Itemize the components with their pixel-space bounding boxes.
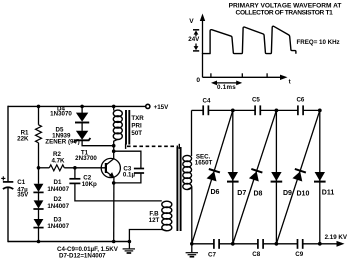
diode D7 vertical xyxy=(232,110,234,243)
label TXR PRI 50T xyxy=(131,115,144,137)
left rail wire lower xyxy=(7,187,9,242)
svg-text:D6: D6 xyxy=(211,189,220,196)
svg-text:D8: D8 xyxy=(254,191,263,198)
capacitor C8 xyxy=(257,239,259,249)
node top 3 xyxy=(318,109,322,113)
svg-text:1N4007: 1N4007 xyxy=(47,223,69,230)
node secondary ground xyxy=(190,242,194,246)
capacitor C1 xyxy=(3,181,13,183)
label T1 2N3700 xyxy=(75,149,97,162)
transformer primary coil TXR PRI 50T xyxy=(113,106,115,110)
svg-text:D11: D11 xyxy=(322,190,335,197)
secondary winding SEC 1650T xyxy=(191,110,193,156)
svg-text:0: 0 xyxy=(196,77,200,84)
svg-text:50T: 50T xyxy=(131,130,142,137)
node top 2 xyxy=(275,109,279,113)
node primary top xyxy=(112,105,116,109)
capacitor C5 xyxy=(254,105,256,115)
24V down arrow xyxy=(195,44,197,48)
diode D1 xyxy=(34,184,44,192)
svg-text:22K: 22K xyxy=(17,136,29,143)
label D1 1N4007 xyxy=(47,179,69,193)
diode D9 vertical xyxy=(275,110,277,243)
svg-text:C9: C9 xyxy=(295,251,303,258)
wire C8 to C9 xyxy=(263,243,297,245)
wire R1 to R2 xyxy=(39,167,50,169)
svg-text:2N3700: 2N3700 xyxy=(75,155,97,162)
left rail wire upper xyxy=(7,106,9,182)
label D5 1N939 ZENER (9V) xyxy=(45,126,79,145)
primary core xyxy=(125,110,127,145)
label C2 10Kp xyxy=(82,174,97,188)
node C2 top xyxy=(73,166,77,170)
axis tick 3 xyxy=(266,73,268,77)
svg-text:t: t xyxy=(289,79,291,86)
+15V terminal xyxy=(146,104,150,108)
svg-text:D7-D12=1N4007: D7-D12=1N4007 xyxy=(59,253,106,260)
label D4 1N3070 xyxy=(50,106,72,118)
label D2 1N4007 xyxy=(47,196,69,210)
core dashed link xyxy=(125,144,127,149)
svg-text:35V: 35V xyxy=(17,192,29,199)
multiplier top rail with C4 C5 C6 xyxy=(192,109,204,111)
svg-text:C8: C8 xyxy=(252,251,260,258)
wire R2 to base xyxy=(64,167,106,169)
svg-text:10Kp: 10Kp xyxy=(82,181,97,188)
node emitter xyxy=(112,181,116,185)
resistor R1 xyxy=(38,106,40,124)
axis tick 2 xyxy=(241,73,243,77)
capacitor C4 xyxy=(202,105,204,115)
diode D6 diagonal xyxy=(192,110,233,243)
ground left xyxy=(128,242,130,249)
axis tick 1 xyxy=(210,73,212,77)
capacitor C3 xyxy=(114,151,141,168)
24V measure top bar xyxy=(193,29,199,31)
svg-text:D7: D7 xyxy=(237,190,246,197)
resistor R2 xyxy=(49,165,64,171)
label F.B 12T xyxy=(149,211,160,224)
transistor T1 xyxy=(101,158,120,177)
wire C4 to node1 xyxy=(208,109,255,111)
svg-text:FREQ= 10 KHz: FREQ= 10 KHz xyxy=(297,39,340,46)
label C3 0.1u xyxy=(123,165,136,178)
node R1 top xyxy=(37,105,41,109)
wire C6 to node3 xyxy=(303,109,320,111)
diode D2 xyxy=(34,200,44,208)
waveform title xyxy=(229,3,342,17)
label D3 1N4007 xyxy=(47,216,69,230)
waveform trace xyxy=(203,26,296,53)
svg-text:V: V xyxy=(189,18,194,25)
secondary core xyxy=(176,147,178,231)
label R2 4.7K xyxy=(51,151,65,164)
label C1 47u 35V xyxy=(17,179,29,199)
output arrow xyxy=(337,241,345,247)
svg-text:12T: 12T xyxy=(149,217,160,224)
svg-text:TXR: TXR xyxy=(131,115,144,122)
svg-text:4.7K: 4.7K xyxy=(51,157,65,164)
24V bottom bar xyxy=(193,50,199,52)
node top 1 xyxy=(231,109,235,113)
node FB ground xyxy=(128,240,132,244)
24V up arrow xyxy=(194,30,199,34)
node collector-zener xyxy=(112,144,116,148)
svg-text:1N3070: 1N3070 xyxy=(50,110,72,117)
svg-text:PRIMARY VOLTAGE WAVEFORM AT: PRIMARY VOLTAGE WAVEFORM AT xyxy=(229,3,342,10)
waveform y-axis xyxy=(202,17,204,77)
label R1 22K xyxy=(17,130,29,143)
diode D11 vertical xyxy=(319,110,321,243)
svg-text:+15V: +15V xyxy=(154,104,169,111)
node emitter ground xyxy=(112,240,116,244)
feedback winding F.B 12T xyxy=(162,201,172,231)
node D3 bottom xyxy=(37,240,41,244)
capacitor C7 xyxy=(213,239,215,249)
svg-text:C6: C6 xyxy=(296,97,304,104)
svg-text:C1: C1 xyxy=(17,179,25,186)
node bottom 1 xyxy=(231,242,235,246)
diode D4 xyxy=(81,106,83,113)
svg-text:C5: C5 xyxy=(252,96,260,103)
collector wire xyxy=(113,146,115,159)
svg-text:2.19 KV: 2.19 KV xyxy=(325,234,348,241)
svg-text:C7: C7 xyxy=(208,252,216,259)
svg-text:C4: C4 xyxy=(203,98,211,105)
top supply rail wire xyxy=(8,105,146,107)
multiplier bottom rail with C7 C8 C9 xyxy=(192,243,214,245)
C1 plus sign xyxy=(1,176,5,180)
node bottom 2 xyxy=(275,242,279,246)
svg-text:1N4007: 1N4007 xyxy=(47,203,69,210)
node D4 top xyxy=(80,105,84,109)
diode D3 xyxy=(34,219,44,227)
svg-text:ZENER (9V): ZENER (9V) xyxy=(45,138,79,145)
wire C5 to C6 xyxy=(260,109,297,111)
node collector-C3 xyxy=(112,149,116,153)
waveform x-axis xyxy=(203,76,284,78)
svg-text:24V: 24V xyxy=(188,36,200,43)
svg-text:1N4007: 1N4007 xyxy=(47,186,69,193)
node base junction left xyxy=(37,166,41,170)
emitter wire xyxy=(113,178,115,242)
wire C7 to node xyxy=(219,243,258,245)
wire zener to collector node xyxy=(82,140,114,145)
svg-text:D9: D9 xyxy=(283,190,292,197)
svg-text:COLLECTOR OF TRANSISTOR T1: COLLECTOR OF TRANSISTOR T1 xyxy=(236,10,334,17)
diode D10 diagonal xyxy=(276,110,319,243)
wire diode stack xyxy=(38,168,40,184)
capacitor C9 xyxy=(297,239,299,249)
bottom rail wire xyxy=(8,241,129,243)
svg-text:1650T: 1650T xyxy=(195,160,213,167)
0.1ms double arrow xyxy=(213,82,241,84)
capacitor C2 xyxy=(74,168,76,179)
label SEC. 1650T xyxy=(195,154,213,167)
svg-text:PRI: PRI xyxy=(131,123,142,130)
diode D8 diagonal xyxy=(233,110,277,243)
zener D5 xyxy=(81,122,83,131)
node bottom 3 xyxy=(318,242,322,246)
ground right xyxy=(191,244,193,252)
capacitor C6 xyxy=(297,105,299,115)
svg-text:D10: D10 xyxy=(297,191,310,198)
svg-text:0.1ms: 0.1ms xyxy=(217,84,236,91)
svg-text:0.1µ: 0.1µ xyxy=(123,172,136,179)
wire C9 to output xyxy=(303,243,338,245)
